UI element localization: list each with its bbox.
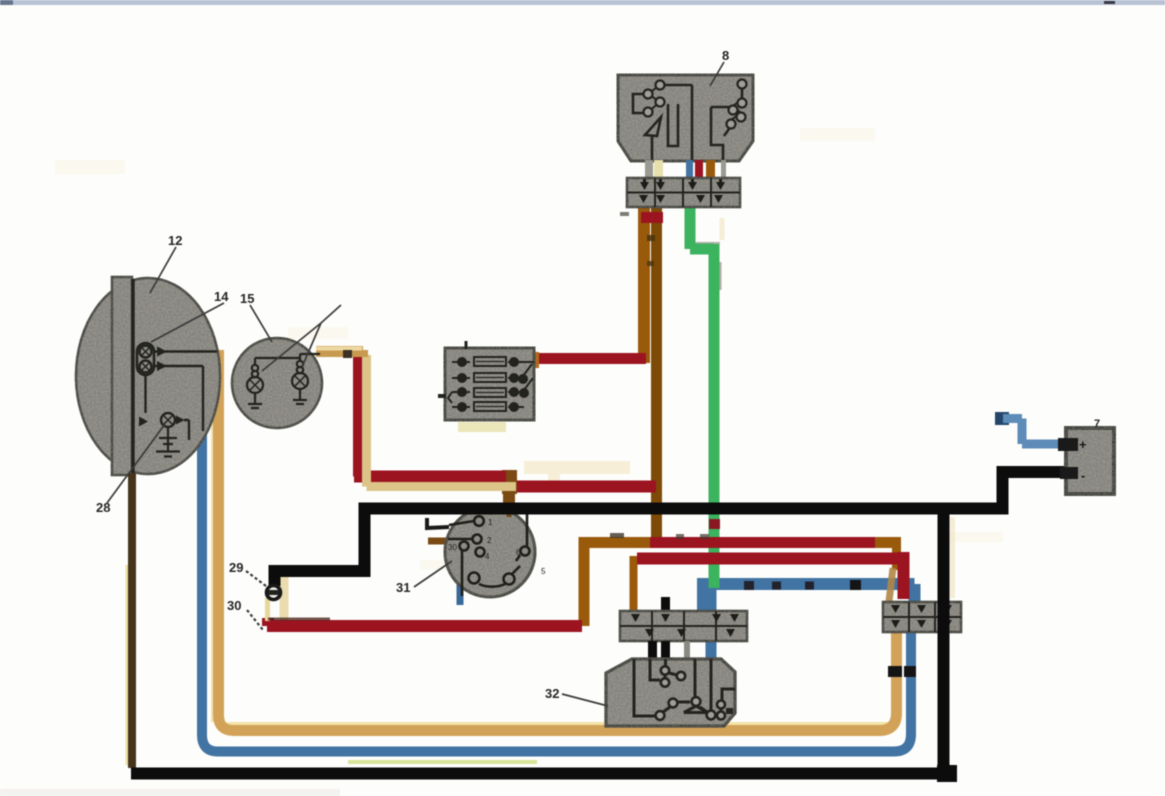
- svg-text:7: 7: [1094, 418, 1100, 430]
- svg-text:14: 14: [214, 289, 229, 304]
- svg-text:31: 31: [396, 580, 410, 595]
- svg-text:+: +: [1079, 437, 1087, 452]
- svg-text:32: 32: [545, 686, 559, 701]
- svg-text:29: 29: [229, 560, 243, 575]
- svg-text:-: -: [1081, 468, 1085, 483]
- svg-text:30: 30: [227, 598, 241, 613]
- svg-text:8: 8: [722, 48, 729, 63]
- svg-text:1: 1: [488, 518, 493, 527]
- svg-text:2: 2: [487, 536, 492, 545]
- svg-text:6: 6: [516, 548, 521, 557]
- svg-text:12: 12: [168, 233, 182, 248]
- svg-text:15: 15: [240, 291, 254, 306]
- svg-text:5: 5: [541, 567, 546, 576]
- svg-text:30: 30: [448, 543, 457, 552]
- svg-text:4: 4: [485, 552, 490, 561]
